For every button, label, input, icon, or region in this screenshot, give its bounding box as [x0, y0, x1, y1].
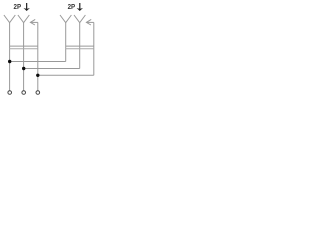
- wire: vertical drop from arrow A1 to output terminal 3: [37, 22, 39, 90]
- wire: vertical drop from Y1 to output terminal 1: [9, 23, 11, 91]
- wire: horizontal bus y75.3 (terminal3 to arrow A2 drop): [38, 74, 94, 76]
- antenna Y2: [18, 15, 29, 23]
- wire: horizontal bus y61.5 (terminal1 to Y3 drop): [10, 61, 66, 63]
- arrow symbol A1 (bent arrow pointing left): [30, 19, 37, 25]
- output terminal 1: [8, 91, 12, 95]
- junction dot 2: [22, 67, 25, 70]
- wire: horizontal bus y68.5 (terminal2 to Y4 drop): [24, 68, 80, 70]
- feeder line lower (right group): [66, 48, 94, 50]
- output terminal 2: [22, 91, 26, 95]
- downlead arrow (right group): [77, 3, 83, 11]
- antenna Y4: [74, 15, 85, 23]
- junction dot 3: [36, 74, 39, 77]
- junction dot 1: [8, 60, 11, 63]
- arrow symbol A2 (bent arrow pointing left): [86, 19, 93, 25]
- wire: vertical drop from Y4 down to bus y68.5: [79, 23, 81, 69]
- svg-text:2P: 2P: [68, 2, 76, 11]
- downlead arrow (left group): [24, 3, 30, 11]
- antenna Y3: [60, 15, 71, 23]
- feeder line upper (right group): [66, 45, 94, 47]
- wire: vertical drop from arrow A2 down to bus y75.3: [93, 22, 95, 75]
- feeder line lower (left group): [10, 48, 38, 50]
- feeder line upper (left group): [10, 45, 38, 47]
- svg-text:2P: 2P: [14, 2, 22, 11]
- wire: vertical drop from Y3 down to bus y61.5: [65, 23, 67, 62]
- antenna Y1: [4, 15, 15, 23]
- output terminal 3: [36, 91, 40, 95]
- wire: vertical drop from Y2 to output terminal 2: [23, 23, 25, 91]
